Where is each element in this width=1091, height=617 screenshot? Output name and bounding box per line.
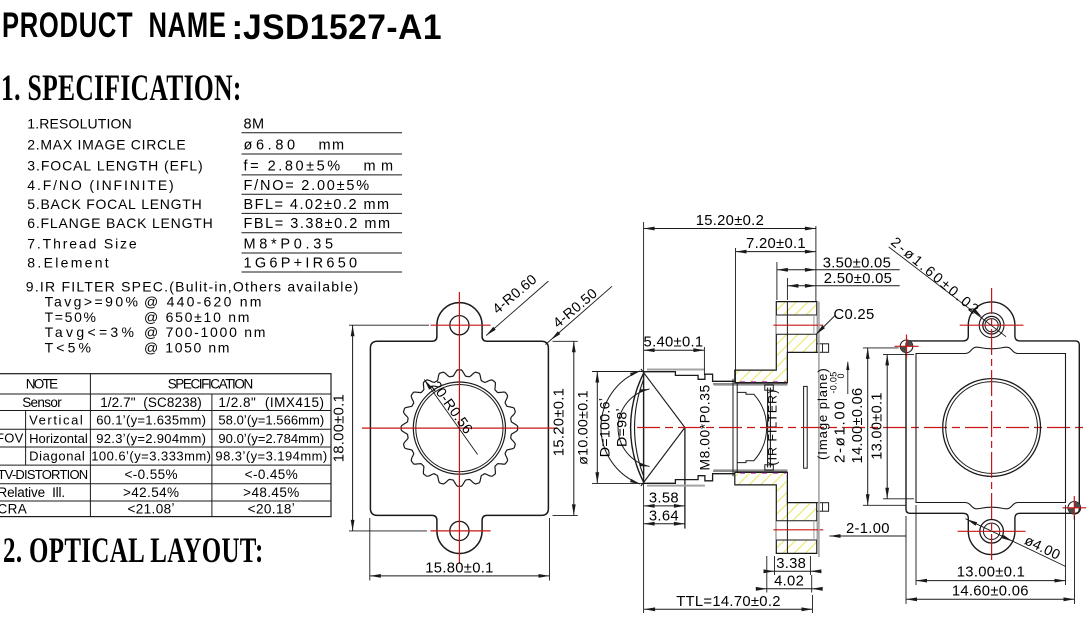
svg-text:<20.18ʼ: <20.18ʼ <box>248 501 295 516</box>
svg-text:Sensor: Sensor <box>22 395 62 410</box>
middle view gray edge bottom rear <box>714 469 788 471</box>
svg-text:<-0.45%: <-0.45% <box>245 467 298 482</box>
svg-text:90.0ʼ(y=2.784mm): 90.0ʼ(y=2.784mm) <box>218 431 324 446</box>
svg-text:T<5%: T<5% <box>45 340 92 356</box>
left view lens barrel inner circle <box>416 385 503 472</box>
middle view dimension 3.64 <box>644 523 685 525</box>
middle view magenta phantom line bottom <box>740 472 786 474</box>
middle view barrel rear face double line <box>732 379 734 476</box>
middle view barrel top profile <box>644 372 765 382</box>
right view red centerline bottom hole <box>958 530 1026 532</box>
svg-text:@ 650±10 nm: @ 650±10 nm <box>144 309 250 325</box>
left view label 20-R0.56 with leader <box>424 380 477 455</box>
middle view sensor face gray line <box>818 302 820 557</box>
left view red horizontal centerline <box>362 427 558 429</box>
right view dimension 13.00±0.1 vertical <box>886 354 888 498</box>
svg-text:15.20±0.1: 15.20±0.1 <box>552 388 568 456</box>
svg-text:13.00±0.1: 13.00±0.1 <box>957 565 1025 581</box>
left view dimension 15.20±0.1 <box>573 341 575 515</box>
right view central bore circle outer <box>943 379 1041 477</box>
svg-text:2-ø1.00: 2-ø1.00 <box>832 401 849 463</box>
middle view gray edge bottom front <box>647 485 705 487</box>
svg-text:Relative Ill.: Relative Ill. <box>0 485 66 500</box>
middle view flange bore wall line bottom <box>786 485 788 554</box>
svg-text:<21.08ʼ: <21.08ʼ <box>127 501 174 516</box>
svg-text:Vertical: Vertical <box>29 413 83 428</box>
svg-text:3.38: 3.38 <box>776 556 806 572</box>
svg-text:D=100.6ʼ: D=100.6ʼ <box>598 398 614 458</box>
svg-text:98.3ʼ(y=3.194mm): 98.3ʼ(y=3.194mm) <box>215 449 327 464</box>
middle view lens dome outer surface <box>631 373 644 482</box>
svg-text:<-0.55%: <-0.55% <box>124 467 177 482</box>
svg-text:13.00±0.1: 13.00±0.1 <box>870 392 886 460</box>
middle view label C0.25 with leader <box>816 316 835 335</box>
right view label 2-ø1.60±0.02 with leader <box>889 247 1006 337</box>
middle view FOV cone lower ray <box>641 428 685 487</box>
middle view red centerline screw hole bottom <box>773 529 823 531</box>
middle view flange bore wall line top <box>786 302 788 371</box>
svg-text:14.60±0.06: 14.60±0.06 <box>952 583 1029 599</box>
left view dimension 15.80±0.1 <box>370 575 550 577</box>
svg-text:Diagonal: Diagonal <box>29 449 85 464</box>
svg-text:3.58: 3.58 <box>649 491 679 507</box>
table vertical line FOV subcolumn <box>25 411 27 466</box>
svg-text::: : <box>232 8 244 47</box>
svg-text:4.F/NO (INFINITE): 4.F/NO (INFINITE) <box>27 177 174 193</box>
svg-text:2.MAX IMAGE CIRCLE: 2.MAX IMAGE CIRCLE <box>27 137 186 153</box>
svg-text:ø6.80: ø6.80 <box>244 138 296 154</box>
svg-text:T=50%: T=50% <box>45 309 97 325</box>
right view outer body outline with tabs <box>906 302 1079 555</box>
middle view holder lower section hatched <box>735 472 817 553</box>
middle view angle arc D=100.6 <box>601 371 640 484</box>
middle view top locating pin <box>817 344 829 353</box>
right view dimension 13.00±0.1 horizontal <box>916 580 1066 582</box>
middle view thread root line top M8 <box>713 383 787 385</box>
left view top tab hole <box>450 316 469 335</box>
middle view holder screw hole bottom (white band) <box>776 521 817 540</box>
left view bottom tab hole <box>450 521 469 540</box>
svg-text:@ 1050 nm: @ 1050 nm <box>144 340 230 356</box>
right view red centerline top hole <box>960 324 1024 326</box>
svg-text:100.6ʼ(y=3.333mm): 100.6ʼ(y=3.333mm) <box>91 449 211 464</box>
table outer border <box>0 374 331 517</box>
middle view barrel front face <box>643 372 645 484</box>
middle view bottom locating pin <box>817 503 829 512</box>
middle view holder screw hole top (white band) <box>776 315 817 334</box>
left view lens barrel outer circle <box>413 382 505 474</box>
svg-text:5.BACK FOCAL LENGTH: 5.BACK FOCAL LENGTH <box>27 196 202 212</box>
svg-text:CRA: CRA <box>0 501 27 516</box>
svg-text:JSD1527-A1: JSD1527-A1 <box>243 8 442 47</box>
table horizontal lines <box>0 393 331 395</box>
svg-text:>48.45%: >48.45% <box>243 485 299 500</box>
svg-text:5.40±0.1: 5.40±0.1 <box>644 335 704 351</box>
svg-text:8M: 8M <box>244 116 265 132</box>
svg-text:3.50±0.05: 3.50±0.05 <box>823 255 891 271</box>
svg-text:2-1.00: 2-1.00 <box>846 521 890 537</box>
svg-text:SPECIFICATION: SPECIFICATION <box>168 377 254 392</box>
svg-text:D=98ʼ: D=98ʼ <box>615 408 631 447</box>
right view red vertical centerline <box>991 288 993 561</box>
middle view image plane strip <box>804 386 808 468</box>
table vertical line spec column divider <box>211 394 213 517</box>
svg-text:92.3ʼ(y=2.904mm): 92.3ʼ(y=2.904mm) <box>96 431 206 446</box>
middle view holder upper section hatched <box>735 302 817 383</box>
middle view dimension 2.50±0.05 <box>787 285 899 287</box>
svg-text:2.50±0.05: 2.50±0.05 <box>824 271 892 287</box>
left view label 4-R0.50 with leader <box>546 286 613 344</box>
left view red centerline bottom hole <box>431 530 491 532</box>
right view datum target bottom-right <box>1068 502 1081 515</box>
middle view dimension TTL=14.70±0.2 <box>644 608 812 610</box>
svg-text:2. OPTICAL LAYOUT:: 2. OPTICAL LAYOUT: <box>3 529 264 570</box>
svg-text:mm: mm <box>319 138 345 154</box>
middle view angle arc D=98 <box>618 389 649 467</box>
left view red centerline top hole <box>431 324 491 326</box>
svg-text:PRODUCT NAME: PRODUCT NAME <box>2 6 227 45</box>
table vertical line NOTE/SPEC divider <box>89 374 91 517</box>
middle view dimension 4.02 <box>758 588 820 590</box>
middle view rear lens element profile <box>737 392 766 462</box>
svg-text:7.Thread Size: 7.Thread Size <box>27 236 137 252</box>
svg-text:4.02: 4.02 <box>774 574 804 590</box>
middle view gray edge top front <box>647 369 705 371</box>
svg-text:6.FLANGE BACK LENGTH: 6.FLANGE BACK LENGTH <box>27 215 213 231</box>
svg-text:@ 440-620 nm: @ 440-620 nm <box>144 294 262 310</box>
middle view thread root line bottom M8 <box>713 470 787 472</box>
middle view label 2-1.00 with leader <box>830 535 907 537</box>
svg-text:-0.05: -0.05 <box>829 371 839 393</box>
svg-text:F/NO= 2.00±5%: F/NO= 2.00±5% <box>244 178 370 194</box>
svg-text:1.RESOLUTION: 1.RESOLUTION <box>27 115 132 131</box>
left view dimension 18.00±0.1 <box>352 325 354 531</box>
svg-text:60.1ʼ(y=1.635mm): 60.1ʼ(y=1.635mm) <box>96 413 206 428</box>
svg-text:ø10.00±0.1: ø10.00±0.1 <box>576 390 592 465</box>
svg-text:TV-DISTORTION: TV-DISTORTION <box>0 467 89 482</box>
svg-text:1G6P+IR650: 1G6P+IR650 <box>244 256 358 272</box>
middle view magenta phantom line top <box>740 381 786 383</box>
svg-text:Tavg<=3%: Tavg<=3% <box>45 324 135 340</box>
svg-text:15.20±0.2: 15.20±0.2 <box>696 213 764 229</box>
right view datum target top-left <box>900 340 913 353</box>
middle view dimension 5.40±0.1 <box>644 349 705 351</box>
right view central bore circle inner <box>946 382 1038 474</box>
svg-text:18.00±0.1: 18.00±0.1 <box>332 394 348 462</box>
svg-text:Horizontal: Horizontal <box>29 431 88 446</box>
middle view gray edge top rear <box>714 384 788 386</box>
svg-text:9.IR FILTER SPEC.(Bulit-in,O: 9.IR FILTER SPEC.(Bulit-in,Others availa… <box>26 279 359 295</box>
middle view FOV cone upper ray <box>641 369 685 428</box>
svg-text:15.80±0.1: 15.80±0.1 <box>425 561 493 577</box>
svg-text:NOTE: NOTE <box>26 377 59 392</box>
svg-text:58.0ʼ(y=1.566mm): 58.0ʼ(y=1.566mm) <box>218 413 324 428</box>
svg-text:>42.54%: >42.54% <box>123 485 179 500</box>
svg-text:1/2.7" (SC8238): 1/2.7" (SC8238) <box>100 395 202 410</box>
middle view principal plane vertical line <box>684 428 686 529</box>
svg-text:FOV: FOV <box>0 430 24 445</box>
left view knurled lens barrel edge (20-R0.56 scallops) <box>401 370 517 486</box>
left view red vertical centerline <box>458 292 460 564</box>
right view dimension 14.60±0.06 <box>906 598 1075 600</box>
middle view dimension 3.58 <box>644 505 685 507</box>
middle view dimension 3.38 <box>766 570 818 572</box>
right view top tab hole circles <box>979 313 1004 338</box>
svg-text:(Image plane): (Image plane) <box>815 368 830 460</box>
middle view front vertex extension line <box>643 222 645 613</box>
right view dimension 14.00±0.06 <box>867 348 869 505</box>
svg-text:3.64: 3.64 <box>649 508 679 524</box>
svg-text:14.00±0.06: 14.00±0.06 <box>850 388 866 464</box>
svg-text:TTL=14.70±0.2: TTL=14.70±0.2 <box>676 594 781 610</box>
middle view dimension 3.50±0.05 <box>777 269 900 271</box>
svg-text:7.20±0.1: 7.20±0.1 <box>746 236 806 252</box>
middle view dimension 7.20±0.1 <box>736 251 816 253</box>
middle view IR filter glass <box>767 388 769 468</box>
middle view dimension 15.20±0.2 <box>644 228 816 230</box>
right view inner contour with bumps <box>916 347 1066 509</box>
svg-text:BFL= 4.02±0.2 mm: BFL= 4.02±0.2 mm <box>244 197 390 213</box>
svg-text:8.Element: 8.Element <box>27 255 109 271</box>
right view bottom tab hole circles <box>980 520 1004 544</box>
middle view IR filter top cap <box>765 385 774 390</box>
svg-text:3.FOCAL LENGTH (EFL): 3.FOCAL LENGTH (EFL) <box>27 158 203 174</box>
middle view barrel bottom profile <box>644 474 765 484</box>
left view label 4-R0.60 with leader <box>486 281 548 335</box>
svg-text:FBL= 3.38±0.2 mm: FBL= 3.38±0.2 mm <box>244 216 391 232</box>
middle view dimension ø10.00±0.1 <box>596 372 598 484</box>
middle view red centerline screw hole top <box>773 324 823 326</box>
svg-text:1/2.8" (IMX415): 1/2.8" (IMX415) <box>218 395 324 410</box>
left view body outline with mounting tabs <box>370 303 548 554</box>
right view label ø4.00 with leader <box>966 519 1067 567</box>
svg-text:C0.25: C0.25 <box>834 307 875 323</box>
middle view main red optical axis dashed <box>637 427 1086 429</box>
middle view IR filter bottom cap <box>765 465 774 470</box>
middle view lens dome inner contour <box>635 380 644 477</box>
svg-text:@ 700-1000 nm: @ 700-1000 nm <box>144 324 266 340</box>
svg-text:1. SPECIFICATION:: 1. SPECIFICATION: <box>1 67 242 108</box>
